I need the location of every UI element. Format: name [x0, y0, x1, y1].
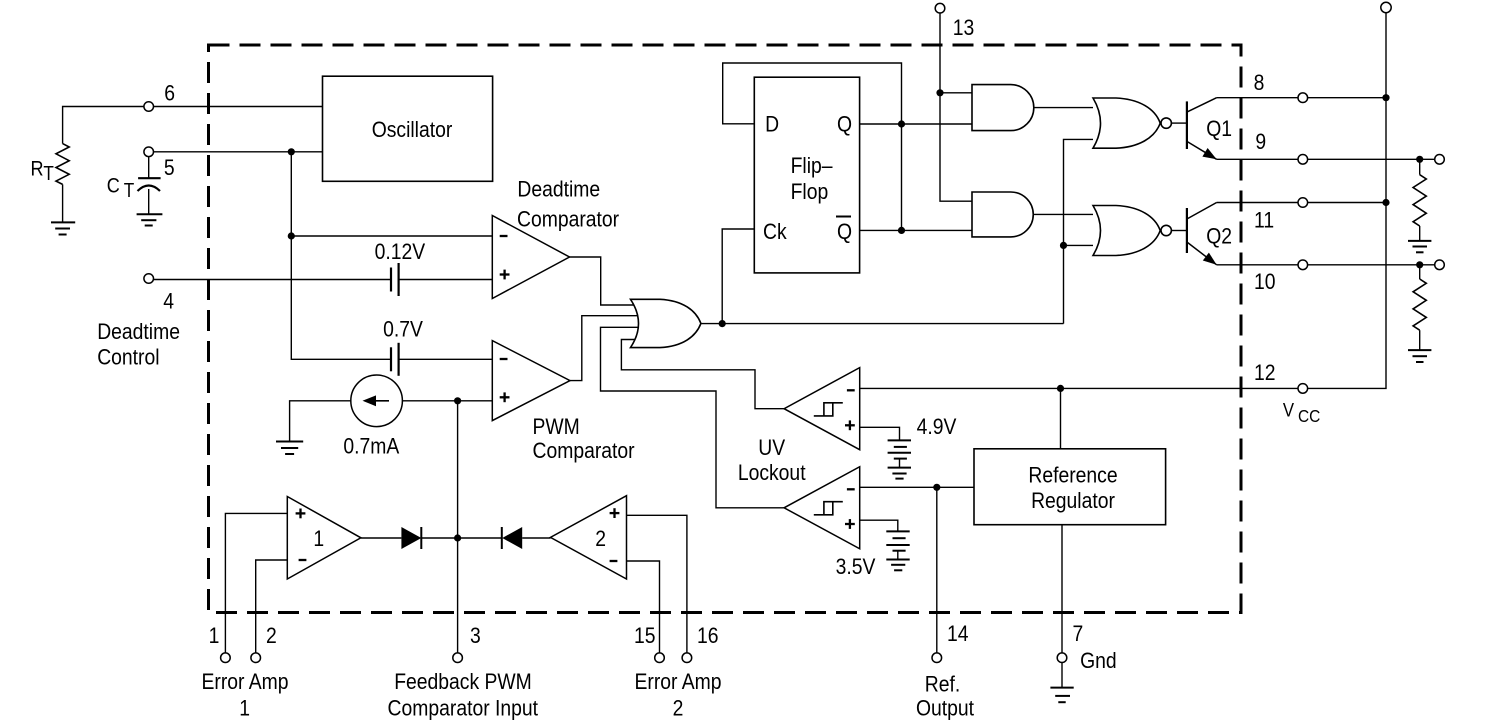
pin 10 terminal — [1254, 260, 1308, 294]
pin 8 terminal — [1254, 71, 1308, 103]
wire 0.7V cap to PWM minus input — [399, 358, 493, 360]
svg-text:T: T — [43, 162, 54, 185]
wire ref output to pin 14 — [936, 487, 938, 652]
wire D input feedback — [723, 63, 902, 230]
wire Q1 emitter to pin 9 — [1217, 158, 1435, 160]
deadtime comparator — [492, 177, 619, 298]
node pin8 VCC junction — [1382, 94, 1389, 101]
wire feedback vertical — [457, 401, 459, 653]
wire upper UV comparator to OR gate — [621, 340, 784, 409]
node osc output (junction on pin5 wire) — [288, 148, 295, 155]
svg-text:D: D — [765, 112, 779, 137]
wire pin13 node to upper AND — [940, 92, 972, 94]
wire feedback to lower NOR input — [1064, 244, 1094, 246]
svg-text:CC: CC — [1298, 406, 1320, 426]
wire lower UV minus to reference regulator — [860, 486, 974, 488]
wire OR output — [701, 323, 1064, 325]
node pin9 external junction — [1416, 156, 1423, 163]
wire current source to ground — [290, 401, 351, 442]
svg-text:Feedback PWM: Feedback PWM — [394, 670, 532, 695]
error amplifier 2 — [551, 496, 627, 579]
pin 7 terminal, Gnd label — [1057, 622, 1116, 674]
wire 0.12V cap to deadtime plus input — [399, 279, 493, 281]
wire junction to reference regulator — [1060, 388, 1062, 448]
OR gate U3 — [631, 299, 701, 347]
pin 12 terminal, VCC label — [1254, 361, 1320, 426]
node Q junction — [898, 120, 905, 127]
node OR output junction — [719, 320, 726, 327]
error amplifier 1 — [287, 497, 361, 580]
pin 14 terminal, Ref. Output label — [916, 622, 974, 721]
svg-text:2: 2 — [673, 696, 684, 721]
svg-text:3: 3 — [470, 624, 481, 649]
ground (3.5V) — [886, 560, 909, 571]
reference regulator U4 — [974, 449, 1166, 525]
wire current source to PWM plus input — [402, 400, 492, 402]
oscillator U-osc — [323, 76, 493, 181]
svg-text:11: 11 — [1254, 208, 1274, 233]
wire upper UV plus to 4.9V — [860, 427, 900, 440]
IC boundary dashed border — [209, 45, 1242, 613]
capacitor 0.12V offset — [375, 239, 426, 296]
svg-text:1: 1 — [239, 696, 250, 721]
svg-text:Comparator: Comparator — [533, 439, 635, 464]
wire Q2 emitter to pin 10 — [1217, 264, 1435, 266]
wire pin12 to UV lockout — [860, 387, 1298, 389]
svg-text:Error Amp: Error Amp — [201, 670, 288, 695]
node pin11 VCC junction — [1382, 199, 1389, 206]
wire Q output to upper AND — [860, 123, 972, 125]
battery 4.9V reference — [888, 440, 911, 467]
svg-text:V: V — [1283, 399, 1295, 420]
wire D2 to EA2 output — [522, 537, 550, 539]
pin 9 terminal — [1255, 130, 1307, 164]
svg-text:Reference: Reference — [1028, 463, 1117, 488]
ground (CT) — [137, 214, 163, 225]
svg-text:3.5V: 3.5V — [836, 555, 876, 580]
wire EA1 minus to pin 2 — [256, 560, 288, 653]
svg-text:Q1: Q1 — [1206, 117, 1232, 142]
svg-text:5: 5 — [164, 156, 175, 181]
transistor Q1 — [1187, 98, 1232, 160]
wire D1 to feedback node — [421, 537, 502, 539]
svg-text:Q2: Q2 — [1206, 224, 1232, 249]
svg-text:0.7V: 0.7V — [383, 317, 423, 342]
svg-text:Flip–: Flip– — [791, 154, 833, 179]
UV Lockout label — [738, 436, 806, 486]
svg-text:Comparator: Comparator — [517, 207, 619, 232]
wire upper AND to upper NOR — [1034, 107, 1093, 109]
svg-text:C: C — [107, 174, 120, 198]
ground (RT) — [51, 222, 75, 234]
UV lockout comparator lower — [784, 467, 860, 549]
pin 6 terminal — [144, 81, 175, 111]
node VCC to reference regulator junction — [1057, 385, 1064, 392]
wire EA2 minus to pin 15 — [627, 561, 660, 653]
NOR gate upper — [1093, 98, 1171, 148]
svg-text:4: 4 — [163, 289, 174, 314]
wire EA2 plus to pin 16 — [627, 515, 687, 652]
diode D1 — [401, 527, 421, 549]
AND gate lower — [972, 192, 1033, 237]
svg-text:Gnd: Gnd — [1080, 649, 1117, 674]
wire lower UV comparator to OR gate — [601, 327, 785, 508]
resistor RT — [31, 144, 70, 223]
svg-text:12: 12 — [1254, 361, 1276, 386]
svg-text:Error Amp: Error Amp — [634, 670, 721, 695]
UV lockout comparator upper — [784, 368, 860, 450]
svg-text:13: 13 — [953, 16, 975, 41]
wire Q2 collector to pin 11 — [1217, 202, 1386, 204]
diode D2 — [502, 527, 522, 549]
node deadtime minus junction — [288, 232, 295, 239]
ground (pin9 load) — [1408, 241, 1431, 252]
svg-text:Q: Q — [837, 112, 852, 137]
wire OR output to flip-flop Ck — [722, 229, 754, 324]
wire reference regulator to pin 7 — [1061, 525, 1063, 653]
wire Qbar output to lower AND — [860, 229, 972, 231]
wire osc node down to comparators — [291, 152, 391, 359]
flip-flop U2 — [754, 77, 859, 273]
svg-text:0.7mA: 0.7mA — [343, 434, 399, 459]
svg-text:1: 1 — [313, 527, 324, 552]
wire to deadtime comparator minus input — [291, 235, 492, 237]
wire VCC rail — [1308, 13, 1386, 389]
pin 4 terminal, Deadtime Control — [97, 274, 180, 370]
svg-text:R: R — [31, 157, 44, 181]
svg-text:Ck: Ck — [763, 220, 787, 245]
svg-text:0.12V: 0.12V — [375, 239, 426, 264]
node ref output junction — [933, 484, 940, 491]
svg-text:Output: Output — [916, 696, 974, 721]
wire lower AND to lower NOR — [1033, 213, 1093, 215]
pin 3 terminal, Feedback PWM Comparator Input label — [388, 624, 539, 721]
svg-text:Oscillator: Oscillator — [372, 118, 453, 143]
ground (current source) — [276, 442, 303, 455]
svg-text:PWM: PWM — [533, 415, 580, 440]
svg-text:8: 8 — [1254, 71, 1265, 96]
svg-text:15: 15 — [634, 624, 656, 649]
ground (pin 7) — [1050, 688, 1073, 703]
wire Q1 collector to pin 8 — [1217, 97, 1386, 99]
emitter terminal 9 external — [1435, 155, 1445, 165]
svg-text:Q: Q — [837, 220, 852, 245]
svg-text:Ref.: Ref. — [925, 672, 960, 697]
svg-text:Flop: Flop — [791, 180, 829, 205]
wire EA1 output to diode D1 — [361, 537, 402, 539]
node pin13 junction — [936, 89, 943, 96]
pin 13 terminal — [935, 3, 974, 40]
wire pin13 to AND gates — [940, 13, 972, 201]
svg-text:16: 16 — [697, 624, 719, 649]
transistor Q2 — [1187, 203, 1232, 265]
emitter terminal 10 external — [1435, 260, 1445, 270]
wire NOR feedback vertical — [1064, 139, 1094, 323]
wire deadtime output to OR gate — [570, 257, 641, 305]
pin 1 terminal, Error Amp 1 label — [201, 624, 288, 721]
NOR gate lower — [1093, 206, 1171, 256]
resistor (pin10 load) — [1413, 265, 1426, 350]
svg-text:Regulator: Regulator — [1031, 489, 1115, 514]
node Qbar junction — [898, 227, 905, 234]
wire pin5 to oscillator — [154, 151, 323, 153]
capacitor 0.7V offset — [383, 317, 423, 376]
wire pin4 to 0.12V capacitor — [154, 279, 391, 281]
svg-text:14: 14 — [947, 622, 969, 647]
ground (4.9V) — [888, 468, 911, 479]
wire lower NOR to Q2 base — [1171, 230, 1187, 232]
node pin10 external junction — [1416, 261, 1423, 268]
node NOR feedback junction — [1060, 242, 1067, 249]
pin 11 terminal — [1254, 198, 1308, 233]
wire pin7 to ground — [1061, 663, 1063, 688]
svg-text:Deadtime: Deadtime — [97, 320, 180, 345]
pin 2 terminal — [251, 624, 277, 663]
capacitor CT — [107, 157, 161, 214]
pin 16 terminal, Error Amp 2 label — [634, 624, 721, 721]
node feedback / pin3 junction — [454, 534, 461, 541]
ground (pin10 load) — [1408, 350, 1431, 362]
AND gate upper — [972, 85, 1034, 131]
node feedback junction on PWM plus — [454, 397, 461, 404]
svg-text:Lockout: Lockout — [738, 461, 806, 486]
resistor (pin9 load) — [1413, 159, 1426, 241]
svg-text:Comparator Input: Comparator Input — [388, 696, 539, 721]
wire lower UV plus to 3.5V — [860, 520, 898, 531]
wire EA1 plus to pin 1 — [225, 513, 287, 652]
svg-text:4.9V: 4.9V — [917, 414, 957, 439]
svg-text:9: 9 — [1255, 130, 1266, 155]
VCC supply terminal — [1381, 2, 1391, 12]
wire pin6 to oscillator — [154, 106, 323, 108]
current source 0.7mA — [343, 375, 402, 459]
svg-text:6: 6 — [164, 81, 175, 106]
svg-text:UV: UV — [758, 436, 785, 461]
pin 5 terminal — [144, 147, 175, 180]
svg-text:2: 2 — [595, 527, 606, 552]
svg-text:T: T — [124, 179, 135, 202]
pin 15 terminal — [634, 624, 664, 663]
svg-text:10: 10 — [1254, 270, 1276, 295]
svg-text:1: 1 — [209, 624, 220, 649]
wire upper NOR to Q1 base — [1171, 122, 1187, 124]
wire PWM output to OR gate — [570, 316, 640, 381]
svg-text:2: 2 — [266, 624, 277, 649]
svg-text:Control: Control — [97, 345, 159, 370]
svg-text:7: 7 — [1073, 622, 1084, 647]
svg-text:Deadtime: Deadtime — [517, 177, 600, 202]
PWM comparator — [492, 341, 634, 464]
battery 3.5V reference — [886, 531, 909, 559]
wire pin6 to RT — [63, 107, 144, 144]
